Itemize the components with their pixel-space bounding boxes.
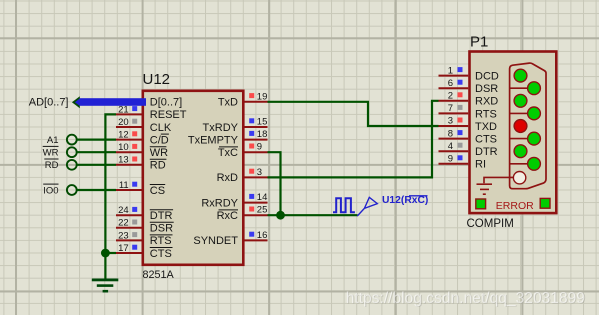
- svg-text:22: 22: [118, 218, 129, 229]
- DB9 pin 7 RTS LED: [528, 107, 541, 120]
- U12 right pin names: [188, 97, 239, 248]
- ground: [92, 279, 119, 293]
- P1 pin names: [475, 71, 499, 171]
- wire A1 to C/D: [77, 139, 116, 141]
- svg-text:DTR: DTR: [475, 146, 498, 158]
- svg-text:ERROR: ERROR: [496, 200, 534, 212]
- voltage probe U12(RxC): [357, 197, 377, 216]
- svg-text:A1: A1: [47, 135, 59, 146]
- svg-text:13: 13: [118, 155, 129, 166]
- pin 16 SYNDET: [244, 239, 268, 241]
- svg-text:CS: CS: [150, 185, 165, 197]
- svg-text:CTS: CTS: [475, 134, 497, 146]
- bus AD[0..7]: [72, 96, 146, 108]
- DB9 pin 4 DTR LED: [514, 145, 527, 158]
- DB9 pin 9 RI LED: [528, 157, 541, 170]
- U12 left pin names: [150, 96, 187, 259]
- svg-text:12: 12: [118, 130, 129, 141]
- svg-text:6: 6: [448, 78, 453, 89]
- svg-text:3: 3: [257, 167, 262, 178]
- pin 11 CS: [116, 189, 142, 191]
- svg-text:DSR: DSR: [475, 83, 498, 95]
- svg-text:DTR: DTR: [150, 210, 173, 222]
- svg-text:CTS: CTS: [150, 248, 172, 260]
- wire RxD to P1 RXD: [268, 101, 439, 178]
- svg-text:IO0: IO0: [43, 185, 58, 196]
- pin 2 RXD: [439, 100, 469, 102]
- pin 22 DSR: [116, 227, 142, 229]
- svg-text:14: 14: [257, 192, 268, 203]
- svg-text:TxC: TxC: [218, 147, 238, 159]
- svg-text:SYNDET: SYNDET: [193, 235, 238, 247]
- DB9 pin 3 TXD LED red: [514, 120, 527, 133]
- pin 4 DTR: [439, 150, 469, 152]
- svg-text:RxC: RxC: [217, 210, 238, 222]
- pin 25 RxC: [244, 214, 268, 216]
- svg-text:CLK: CLK: [150, 122, 172, 134]
- svg-text:9: 9: [448, 154, 453, 165]
- P1 pins: [439, 76, 469, 164]
- svg-text:19: 19: [257, 91, 268, 102]
- svg-text:TxD: TxD: [218, 97, 238, 109]
- svg-text:DCD: DCD: [475, 71, 499, 83]
- DB9 pin 2 RXD LED: [514, 94, 527, 107]
- svg-text:RESET: RESET: [150, 109, 187, 121]
- svg-text:16: 16: [257, 230, 268, 241]
- svg-text:https://blog.csdn.net/qq_32031: https://blog.csdn.net/qq_32031899: [346, 290, 585, 307]
- connector P1 body: [470, 52, 557, 214]
- svg-text:TXD: TXD: [475, 121, 497, 133]
- pin 21 RESET wire stub: [116, 113, 142, 115]
- svg-text:9: 9: [257, 142, 262, 153]
- pin 3 TXD: [439, 125, 469, 127]
- svg-text:3: 3: [448, 116, 453, 127]
- svg-text:25: 25: [257, 205, 268, 216]
- svg-text:COMPIM: COMPIM: [467, 218, 514, 230]
- wire RD: [77, 164, 116, 166]
- svg-text:DSR: DSR: [150, 223, 173, 235]
- svg-text:17: 17: [118, 243, 129, 254]
- svg-text:AD[0..7]: AD[0..7]: [29, 97, 69, 109]
- svg-text:RTS: RTS: [150, 235, 172, 247]
- wire TxC down: [268, 152, 281, 215]
- wire TxD to P1 TXD: [268, 102, 439, 126]
- junction RxC node: [276, 211, 285, 220]
- svg-text:7: 7: [448, 103, 453, 114]
- svg-text:RI: RI: [475, 159, 486, 171]
- svg-text:15: 15: [257, 117, 268, 128]
- pin 1 DCD: [439, 75, 469, 77]
- terminal A1: [47, 135, 77, 146]
- U12 right pins: [244, 102, 268, 241]
- waveform icon: [333, 198, 355, 212]
- pin 3 RxD: [244, 176, 268, 178]
- svg-text:10: 10: [118, 142, 129, 153]
- svg-text:24: 24: [118, 205, 129, 216]
- terminal IO0: [43, 184, 77, 196]
- junction CTS node: [101, 249, 110, 258]
- svg-text:TxRDY: TxRDY: [203, 122, 239, 134]
- pin 6 DSR: [439, 87, 469, 89]
- DB9 pin 6 DSR LED: [528, 82, 541, 95]
- svg-text:11: 11: [119, 180, 129, 191]
- wire RxC to probe: [268, 214, 358, 216]
- svg-text:RXD: RXD: [475, 96, 498, 108]
- svg-text:23: 23: [118, 230, 129, 241]
- DB9 hole stubs: [510, 88, 528, 164]
- svg-text:RD: RD: [45, 160, 59, 171]
- pin 18 TxEMPTY: [244, 139, 268, 141]
- svg-text:18: 18: [257, 129, 268, 140]
- DB9 pin 1 DCD LED: [514, 69, 527, 82]
- pin 14 RxRDY: [244, 202, 268, 204]
- svg-text:P1: P1: [470, 33, 488, 50]
- U12 left overlines: [150, 134, 174, 247]
- DB9 pin 8 CTS LED: [528, 132, 541, 145]
- pin 17 CTS: [116, 252, 142, 254]
- label U12(RxC): [382, 195, 428, 206]
- svg-text:1: 1: [448, 65, 453, 76]
- svg-text:8: 8: [448, 128, 453, 139]
- U12 left pins: [116, 114, 142, 253]
- P1 pin numbers: [448, 65, 453, 164]
- svg-text:TxEMPTY: TxEMPTY: [188, 134, 239, 146]
- DB9 pin 5 GND hole: [513, 172, 525, 184]
- svg-text:2: 2: [448, 91, 453, 102]
- pin 19 TxD: [244, 101, 268, 103]
- U12 right pin numbers: [257, 91, 268, 241]
- wire WR: [77, 151, 116, 153]
- pin 12 C/D: [116, 139, 142, 141]
- svg-text:4: 4: [448, 141, 453, 152]
- svg-text:U12: U12: [143, 71, 171, 88]
- pin 7 RTS: [439, 112, 469, 114]
- wire branch to CTS: [105, 252, 116, 254]
- chip U12 body: [143, 91, 244, 265]
- pin 15 TxRDY: [244, 126, 268, 128]
- svg-text:U12(RxC): U12(RxC): [382, 195, 428, 206]
- pin 9 TxC: [244, 151, 268, 153]
- U12 right overlines TxC RxC: [219, 147, 239, 210]
- svg-text:C/D: C/D: [150, 134, 169, 146]
- svg-text:21: 21: [118, 104, 129, 115]
- pin 10 WR: [116, 151, 142, 153]
- U12 left pin state squares: [132, 106, 137, 250]
- wire RESET to ground rail: [105, 114, 116, 279]
- svg-text:RxD: RxD: [217, 172, 238, 184]
- pin 9 RI: [439, 163, 469, 165]
- pin 13 RD: [116, 164, 142, 166]
- U12 right pin state squares: [249, 93, 254, 237]
- svg-text:RTS: RTS: [475, 108, 497, 120]
- terminal RD: [44, 159, 76, 171]
- P1 internal ground symbol: [477, 177, 514, 194]
- svg-text:RxRDY: RxRDY: [201, 197, 238, 209]
- svg-text:WR: WR: [150, 147, 168, 159]
- P1 pin state squares: [458, 67, 463, 160]
- ERROR indicator squares: [476, 199, 486, 209]
- U12 left pin numbers: [118, 104, 129, 254]
- svg-text:RD: RD: [150, 160, 166, 172]
- svg-text:WR: WR: [43, 148, 59, 159]
- svg-text:20: 20: [118, 117, 129, 128]
- pin 20 CLK: [116, 126, 142, 128]
- terminal WR: [43, 146, 77, 158]
- pin 23 RTS: [116, 239, 142, 241]
- pin 24 DTR: [116, 214, 142, 216]
- svg-text:8251A: 8251A: [143, 269, 175, 281]
- svg-text:D[0..7]: D[0..7]: [150, 96, 182, 108]
- DB9 connector outline: [510, 63, 546, 189]
- wire IO0 to CS: [77, 189, 116, 191]
- pin 8 CTS: [439, 138, 469, 140]
